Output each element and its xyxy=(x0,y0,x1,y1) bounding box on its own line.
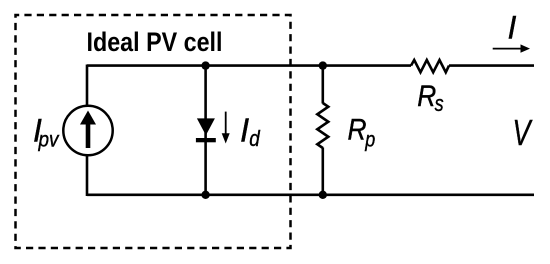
label "Ideal PV cell" xyxy=(87,27,223,57)
svg-text:V: V xyxy=(513,112,533,153)
resistor Rs (series) xyxy=(411,60,449,72)
svg-text:s: s xyxy=(435,91,444,116)
output current arrow xyxy=(493,44,530,52)
resistor Rp (shunt) with leads xyxy=(317,66,328,195)
node junction dot bottom of Rp xyxy=(319,191,327,199)
diode D xyxy=(196,118,216,142)
node junction dot top of Rp xyxy=(319,61,327,69)
label Rs xyxy=(417,80,443,116)
node junction dot bottom of diode xyxy=(201,191,209,199)
wire left branch (current source leads) xyxy=(86,65,89,197)
current source arrow (upward) xyxy=(80,111,96,149)
label V (output voltage) xyxy=(513,112,533,153)
svg-text:Ideal PV cell: Ideal PV cell xyxy=(87,27,223,57)
wire bottom rail xyxy=(87,194,534,197)
label Id xyxy=(240,112,260,151)
label I (output current) xyxy=(508,9,517,45)
current direction arrow Id xyxy=(222,112,230,144)
label Ipv xyxy=(33,113,60,152)
svg-text:I: I xyxy=(508,9,517,45)
wire top rail right segment (Rs to output) xyxy=(449,64,534,67)
svg-text:R: R xyxy=(417,80,436,113)
node junction dot top of diode xyxy=(201,61,209,69)
svg-text:pv: pv xyxy=(38,128,60,151)
wire top rail left segment (current source to Rs) xyxy=(87,64,411,67)
wire diode branch xyxy=(204,66,207,195)
dashed boundary box of ideal PV cell xyxy=(16,15,291,248)
svg-text:I: I xyxy=(240,112,249,149)
svg-text:R: R xyxy=(348,113,367,146)
current source Ipv circle xyxy=(63,106,112,155)
svg-text:p: p xyxy=(364,128,375,151)
label Rp xyxy=(348,113,376,151)
svg-text:d: d xyxy=(249,126,260,151)
